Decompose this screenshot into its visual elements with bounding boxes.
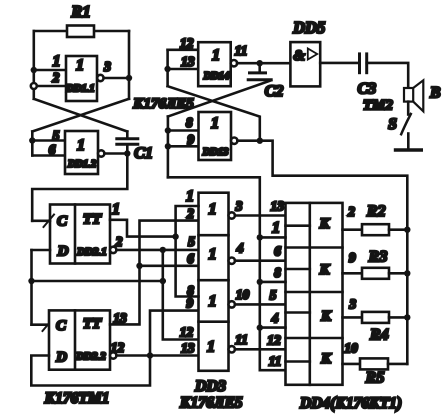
svg-text:1: 1 [209, 246, 217, 263]
svg-text:ТМ2: ТМ2 [363, 98, 394, 114]
output bubble DD3.2 [229, 258, 235, 264]
svg-text:C: C [56, 318, 67, 334]
wire output3 DD1.1 [104, 77, 129, 80]
svg-text:C: C [57, 214, 68, 230]
amplifier DD5 [290, 42, 320, 86]
svg-text:10: 10 [344, 341, 358, 356]
wire out11 to DD4 [235, 348, 286, 351]
svg-text:9: 9 [186, 296, 193, 311]
wire pin6 DD3 [140, 264, 199, 267]
svg-text:11: 11 [269, 354, 282, 369]
wire D loop vertical DD2.1 [30, 250, 33, 325]
wire output DD1.2 [104, 152, 127, 155]
svg-text:R2: R2 [366, 203, 386, 220]
junction dot node C1-out [124, 150, 130, 156]
svg-text:2: 2 [115, 234, 123, 249]
svg-text:1: 1 [53, 53, 61, 70]
svg-text:DD2.2: DD2.2 [75, 351, 106, 363]
wire input12 DD1.4 [168, 48, 199, 51]
svg-text:1: 1 [272, 220, 280, 237]
wire D input DD2.1 [32, 249, 51, 252]
switch S blade [401, 114, 411, 134]
wire R5 to rail [388, 363, 407, 366]
svg-text:C1: C1 [134, 145, 153, 162]
junction dot out12-net [147, 352, 153, 358]
wire pin1 DD3 tie [176, 206, 199, 297]
svg-text:5: 5 [53, 128, 60, 143]
svg-text:11: 11 [235, 332, 248, 347]
switch block DD4 [286, 203, 343, 385]
resistor R5 [360, 358, 388, 369]
wire output13 DD2.2 to pin2/pin6 DD3 [110, 221, 199, 325]
junction dot common row1 [257, 234, 263, 240]
svg-text:9: 9 [349, 250, 356, 265]
junction dot common row4 [257, 324, 263, 330]
output bubble DD3.3 [229, 301, 235, 307]
svg-text:К: К [320, 351, 332, 367]
svg-text:13: 13 [271, 199, 285, 214]
svg-text:5: 5 [270, 288, 277, 303]
wire DD5 out [320, 62, 359, 65]
wire DD4 row1 from common [260, 236, 286, 239]
op-amp gate DD1.1 [66, 56, 97, 101]
resistor R4 [362, 312, 389, 323]
output bubble DD1.3 [231, 138, 237, 144]
wire C input DD2.1 [32, 220, 50, 223]
svg-text:13: 13 [181, 341, 195, 356]
wire DD1.4 input vertical [166, 50, 169, 86]
svg-text:R3: R3 [368, 249, 388, 266]
wire DD1.2 input vertical [31, 132, 34, 156]
flip-flop DD2.1 [50, 205, 110, 264]
svg-text:1: 1 [209, 293, 217, 310]
svg-text:3: 3 [235, 199, 243, 214]
op-amp gate DD1.4 [198, 42, 231, 86]
output bubble DD1.4 [231, 60, 237, 66]
wire cross diagonal DD1 right B (C2 to DD1.3-in) [168, 80, 271, 116]
wire speaker to switch [407, 102, 410, 115]
capacitor C2 [258, 63, 261, 72]
junction dot node in1 [31, 67, 37, 73]
junction dot in9 [165, 143, 171, 149]
wire input8 DD1.3 [168, 129, 199, 132]
junction dot in8 [165, 127, 171, 133]
svg-text:S: S [388, 116, 397, 133]
svg-text:11: 11 [235, 43, 248, 58]
svg-text:5: 5 [188, 234, 195, 249]
resistor R3 [362, 268, 389, 279]
junction dot in13 [164, 66, 170, 72]
wire switch2 out to R3 [343, 272, 363, 275]
output bubble DD2.1 pin2 [110, 247, 116, 253]
ground [407, 134, 410, 150]
svg-text:DD1.1: DD1.1 [65, 84, 94, 95]
gate block DD3 [199, 193, 229, 371]
wire out12 up to pin9 DD3 [150, 311, 199, 356]
svg-text:6: 6 [274, 244, 281, 259]
svg-text:DD4(К176КТ1): DD4(К176КТ1) [299, 395, 402, 412]
wire output2 DD2.1 to pin5 DD3 [116, 249, 198, 252]
wire switch4 out to R5 [343, 363, 361, 366]
output bubble DD3.1 [229, 212, 235, 218]
svg-text:R5: R5 [365, 370, 385, 387]
op-amp gate DD1.3 [199, 112, 232, 160]
svg-text:3: 3 [103, 59, 111, 74]
resistor R1 [67, 26, 94, 38]
svg-text:К176ТМ1: К176ТМ1 [44, 390, 110, 407]
wire top loop left vertical [32, 31, 35, 99]
output bubble DD2.2 pin12 [110, 352, 116, 358]
capacitor C1 [126, 132, 129, 139]
svg-text:TT: TT [83, 212, 102, 228]
junction dot rail R2 [404, 227, 410, 233]
junction dot out2-net mid [160, 278, 166, 284]
wire D1 branch horizontal [32, 280, 165, 283]
junction dot node out3 [126, 75, 132, 81]
svg-text:3: 3 [348, 297, 356, 312]
op-amp gate DD1.2 [65, 131, 98, 174]
wire out3 to DD4 [235, 214, 286, 217]
wire C input DD2.2 [32, 323, 50, 326]
dynamic input slash DD2.2 C [43, 319, 54, 332]
svg-text:4: 4 [236, 241, 244, 256]
wire cross diagonal B [32, 99, 129, 132]
output bubble DD1.2 [98, 150, 104, 156]
junction dot out2-net top [160, 247, 166, 253]
junction dot out1-net [172, 233, 178, 239]
svg-text:R4: R4 [369, 327, 389, 344]
wire output12 DD2.2 to pin13 DD3 [116, 354, 198, 357]
wire input1 DD1.1 [34, 69, 66, 72]
svg-text:2: 2 [52, 70, 60, 85]
svg-text:DD14: DD14 [203, 71, 230, 82]
wire R4 to rail [389, 316, 407, 319]
svg-text:2: 2 [186, 206, 194, 221]
svg-text:D: D [55, 350, 67, 366]
svg-text:DD13: DD13 [202, 147, 229, 158]
svg-text:1: 1 [77, 137, 85, 154]
svg-text:К: К [319, 262, 331, 278]
junction dot common row8 [257, 279, 263, 285]
svg-text:13: 13 [181, 54, 195, 69]
svg-text:1: 1 [207, 339, 215, 356]
wire out4 to DD4 [235, 259, 286, 262]
svg-text:DD1.2: DD1.2 [67, 159, 97, 170]
junction dot DD1.3 out [257, 138, 263, 144]
wire cross diagonal DD1 right A (DD1.3-out to DD1.4-in) [168, 86, 260, 141]
svg-text:1: 1 [112, 201, 120, 218]
wire DD4 row8 from common [260, 281, 286, 284]
output bubble DD1.1 [97, 75, 103, 81]
svg-text:12: 12 [180, 325, 194, 340]
wire R2 to rail [389, 228, 407, 231]
wire input9 DD1.3 [168, 145, 199, 148]
svg-text:2: 2 [347, 204, 355, 219]
svg-text:10: 10 [236, 287, 250, 302]
wire output1 DD2.1 [110, 220, 176, 237]
junction dot rail R4 [404, 314, 410, 320]
DD4 inner ladder vertical [308, 203, 311, 385]
svg-text:&: & [293, 48, 305, 64]
wire top loop right vertical [128, 31, 131, 99]
flip-flop DD2.2 [49, 310, 110, 369]
wire switch3 out to R4 [343, 316, 363, 319]
junction dot out13-net [136, 263, 142, 269]
svg-text:1: 1 [186, 188, 194, 205]
wire DD4 row4 from common [260, 326, 286, 329]
wire input13 DD1.4 [168, 68, 199, 71]
svg-text:6: 6 [49, 142, 56, 157]
svg-text:1: 1 [209, 201, 217, 218]
wire R3 to rail [389, 272, 407, 275]
svg-text:C2: C2 [265, 83, 284, 100]
svg-text:1: 1 [211, 115, 219, 132]
svg-text:8: 8 [186, 115, 193, 130]
svg-text:8: 8 [274, 265, 281, 280]
wire DD1.2 out down to bottom [32, 154, 127, 221]
svg-text:1: 1 [76, 57, 84, 74]
svg-text:C3: C3 [357, 81, 376, 98]
svg-text:R1: R1 [70, 2, 90, 21]
junction dot C2 top [257, 60, 263, 66]
junction dot rail R3 [404, 270, 410, 276]
wire input5 DD1.2 [32, 139, 65, 142]
wire DD1.3-in common to DD4 [168, 177, 286, 370]
svg-text:К176ЛЕ5: К176ЛЕ5 [179, 395, 243, 412]
svg-text:DD3: DD3 [194, 378, 226, 395]
svg-text:К: К [319, 216, 331, 232]
junction dot node in5 [29, 137, 35, 143]
svg-text:9: 9 [187, 132, 194, 147]
junction dot node D1 [28, 278, 34, 284]
svg-text:D: D [57, 244, 69, 260]
svg-text:К: К [320, 309, 332, 325]
wire input6 DD1.2 [32, 154, 65, 157]
svg-text:DD2.1: DD2.1 [76, 246, 107, 258]
svg-text:12: 12 [111, 340, 125, 355]
svg-text:DD5: DD5 [292, 18, 325, 37]
speaker B telephone capsule [404, 88, 413, 102]
wire out11 to DD5 [237, 62, 290, 65]
wire cross diagonal A [34, 99, 128, 132]
wire out DD1.3 to right [237, 141, 407, 364]
wire input2 DD1.1 [34, 85, 66, 88]
dynamic input slash DD2.1 C [44, 215, 55, 228]
wire DD1.3 input vertical [167, 117, 170, 178]
wire top loop horizontal [34, 30, 129, 33]
open junction node in2 [31, 83, 37, 89]
wire D loop DD2.2 [31, 356, 150, 386]
svg-text:4: 4 [271, 311, 279, 326]
svg-text:В: В [429, 85, 440, 102]
svg-text:6: 6 [187, 251, 194, 266]
wire out2-net vertical [163, 250, 199, 340]
svg-text:1: 1 [212, 47, 220, 64]
capacitor C3 [358, 54, 361, 73]
wire out10 to DD4 [235, 303, 286, 306]
svg-text:12: 12 [180, 36, 194, 51]
svg-text:12: 12 [267, 333, 281, 348]
svg-text:TT: TT [83, 316, 102, 332]
output bubble DD3.4 [229, 346, 235, 352]
resistor R2 [362, 224, 389, 235]
DD4 ladder rungs [286, 224, 310, 227]
wire switch1 out to R2 [343, 228, 363, 231]
